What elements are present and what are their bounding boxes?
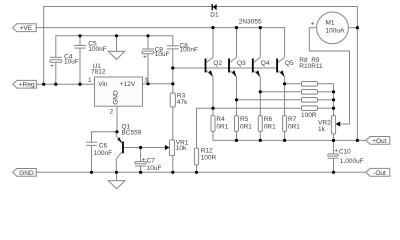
wire R3 bottom to VR1 top (172, 107, 174, 140)
svg-text:BC559: BC559 (122, 130, 142, 137)
wire row 4 R11 to stack node (318, 107, 334, 109)
svg-text:R10: R10 (299, 63, 311, 70)
meter M1 (311, 12, 349, 44)
wire row 2 R9 to stack node (318, 91, 334, 93)
wire C10 bottom to ground rail (333, 158, 335, 172)
resistor R7 (283, 116, 301, 132)
potentiometer VR2 (318, 116, 340, 135)
svg-text:M1: M1 (326, 19, 335, 26)
svg-text:10k: 10k (176, 145, 187, 152)
svg-text:+VE: +VE (20, 25, 33, 32)
capacitor C7 (135, 157, 162, 172)
connector tag -Out (366, 168, 390, 177)
svg-text:Vin: Vin (98, 81, 108, 88)
ground symbol bottom (108, 181, 125, 189)
wire C6 bottom to ground rail (91, 145, 93, 172)
ground symbol top (108, 51, 124, 59)
svg-text:R5: R5 (240, 116, 249, 123)
wire Q1 base to VR1 wiper (124, 147, 165, 149)
connector tag +Out (366, 137, 390, 145)
wire C9 vertical upper (147, 36, 149, 49)
svg-text:Q2: Q2 (213, 60, 222, 67)
svg-text:7812: 7812 (91, 68, 106, 75)
wire R7 bottom (284, 132, 286, 141)
resistor R4 (211, 116, 229, 132)
wire Q4 emitter to R6 (259, 77, 261, 116)
svg-text:1,000uF: 1,000uF (340, 158, 364, 165)
wire M1 right terminal to main vertical (348, 27, 357, 29)
potentiometer VR1 (165, 139, 189, 155)
svg-text:GND: GND (19, 170, 34, 177)
capacitor C10 (328, 147, 364, 165)
svg-text:Q3: Q3 (237, 60, 246, 67)
diode D1 (210, 4, 219, 19)
svg-text:47k: 47k (177, 99, 188, 106)
capacitor C6 (86, 142, 112, 157)
wire averaging row 2 Q4 to R9 (260, 91, 301, 93)
wire +Reg rail to U1 pin 1 (36, 83, 94, 85)
svg-text:100nF: 100nF (88, 46, 106, 53)
wire VR2 bottom to output rail (333, 134, 335, 140)
svg-text:-Out: -Out (373, 170, 386, 177)
wire +VE rail to Q5 collector (36, 28, 284, 58)
connector tag GND (13, 169, 37, 177)
svg-text:10uF: 10uF (64, 59, 79, 66)
wire C6 top corner to pin2 node (92, 132, 118, 142)
capacitor C5 (74, 41, 107, 53)
svg-text:Q5: Q5 (285, 60, 294, 67)
capacitor C8 (167, 43, 198, 54)
wire R5 bottom (236, 132, 238, 141)
resistor R9 (302, 90, 318, 95)
transistor Q5 (276, 57, 294, 76)
wire ground stem near C5 (116, 36, 118, 52)
svg-text:100R: 100R (201, 154, 217, 161)
wire base line to transistors (173, 67, 277, 69)
resistor R10 (302, 98, 318, 103)
svg-text:1k: 1k (318, 126, 326, 133)
transistor Q1 BC559 (116, 123, 141, 172)
svg-text:Q4: Q4 (261, 60, 270, 67)
wire VR2 wiper to meter plus wrap (309, 28, 349, 124)
wire U1 pin 2 down (116, 106, 118, 132)
svg-text:+: + (311, 20, 315, 27)
svg-text:10uF: 10uF (155, 51, 170, 58)
wire averaging row 3 Q3 to R10 (237, 99, 302, 101)
wire C8 bottom through base node to R3 (172, 49, 174, 93)
svg-text:2: 2 (110, 108, 114, 115)
svg-text:100nF: 100nF (94, 150, 112, 157)
svg-text:+Out: +Out (372, 138, 386, 145)
labels R8 R9 R10 R11 (299, 57, 323, 119)
svg-text:100R: 100R (301, 112, 317, 119)
wire R6 bottom (259, 132, 261, 141)
svg-text:+Reg: +Reg (19, 82, 35, 89)
connector tag +Reg (13, 80, 37, 88)
wire row 1 R8 to stack node (318, 84, 334, 116)
capacitor C9 (142, 46, 169, 60)
svg-text:R11: R11 (311, 63, 323, 70)
resistor R6 (258, 116, 276, 132)
svg-text:R7: R7 (288, 116, 297, 123)
svg-text:100nF: 100nF (180, 47, 198, 54)
regulator U1 7812 box (88, 63, 148, 115)
svg-text:0R1: 0R1 (288, 123, 300, 130)
wire averaging row 1 Q5 to R8 (285, 83, 302, 85)
svg-text:GND: GND (113, 90, 120, 105)
wire C10 top (333, 140, 335, 154)
svg-text:C10: C10 (339, 148, 351, 155)
wire R12 bottom to ground rail (196, 165, 198, 172)
wire output rail under emitter resistors (213, 132, 366, 141)
transistor Q2 (205, 57, 223, 76)
svg-text:0R1: 0R1 (240, 123, 252, 130)
wire C5 vertical upper (79, 36, 81, 46)
svg-text:+: + (142, 157, 146, 164)
svg-text:R6: R6 (264, 116, 273, 123)
wire C7 bottom to ground rail (140, 166, 142, 172)
svg-text:+: + (334, 147, 338, 154)
resistor R3 (170, 93, 188, 108)
svg-text:R4: R4 (216, 116, 225, 123)
svg-text:0R1: 0R1 (216, 123, 228, 130)
wire C4 bottom to +Reg rail (55, 62, 57, 84)
svg-text:C6: C6 (99, 143, 108, 150)
svg-text:+12V: +12V (120, 81, 136, 88)
wire ground rail (36, 171, 366, 173)
svg-text:0R1: 0R1 (264, 123, 276, 130)
connector tag +VE (13, 24, 37, 32)
svg-text:10uF: 10uF (147, 165, 162, 172)
wire VR1 bottom to ground rail (172, 156, 174, 173)
wire U1 pin 3 to C8/R3 node (143, 83, 173, 85)
transistor Q4 (252, 57, 270, 76)
wire capacitor ground rail (56, 36, 173, 58)
svg-text:2N3055: 2N3055 (239, 19, 262, 26)
svg-text:+: + (50, 63, 54, 70)
wire collector stub Q3 (236, 28, 238, 58)
wire Q2 emitter to R4 (212, 77, 214, 116)
transistor Q3 (228, 57, 246, 76)
svg-text:D1: D1 (210, 12, 219, 19)
wire collector stub Q4 (259, 28, 261, 58)
wire Q3 emitter to R5 (236, 77, 238, 116)
wire top rail from +Reg vertical to main right vertical (44, 7, 358, 141)
wire C5 vertical lower (79, 48, 81, 84)
wire collector stub Q2 (212, 28, 214, 58)
svg-text:+: + (143, 54, 147, 61)
resistor R5 (235, 116, 253, 132)
resistor R11 (302, 106, 318, 111)
wire ground stem bottom (116, 172, 118, 180)
svg-text:1: 1 (88, 77, 92, 84)
capacitor C4 (50, 53, 79, 70)
resistor R12 (194, 148, 216, 165)
wire Q5 emitter to R7 (284, 77, 286, 116)
wire C7 top (140, 148, 142, 162)
svg-text:100uA: 100uA (326, 28, 345, 35)
resistor R8 (302, 82, 318, 87)
wire averaging row 4 R12 corner through Q2 emitter to R11 (197, 108, 302, 148)
wire C9 vertical lower (147, 54, 149, 84)
wire row 3 R10 to stack node (318, 99, 334, 101)
svg-text:C7: C7 (147, 158, 156, 165)
